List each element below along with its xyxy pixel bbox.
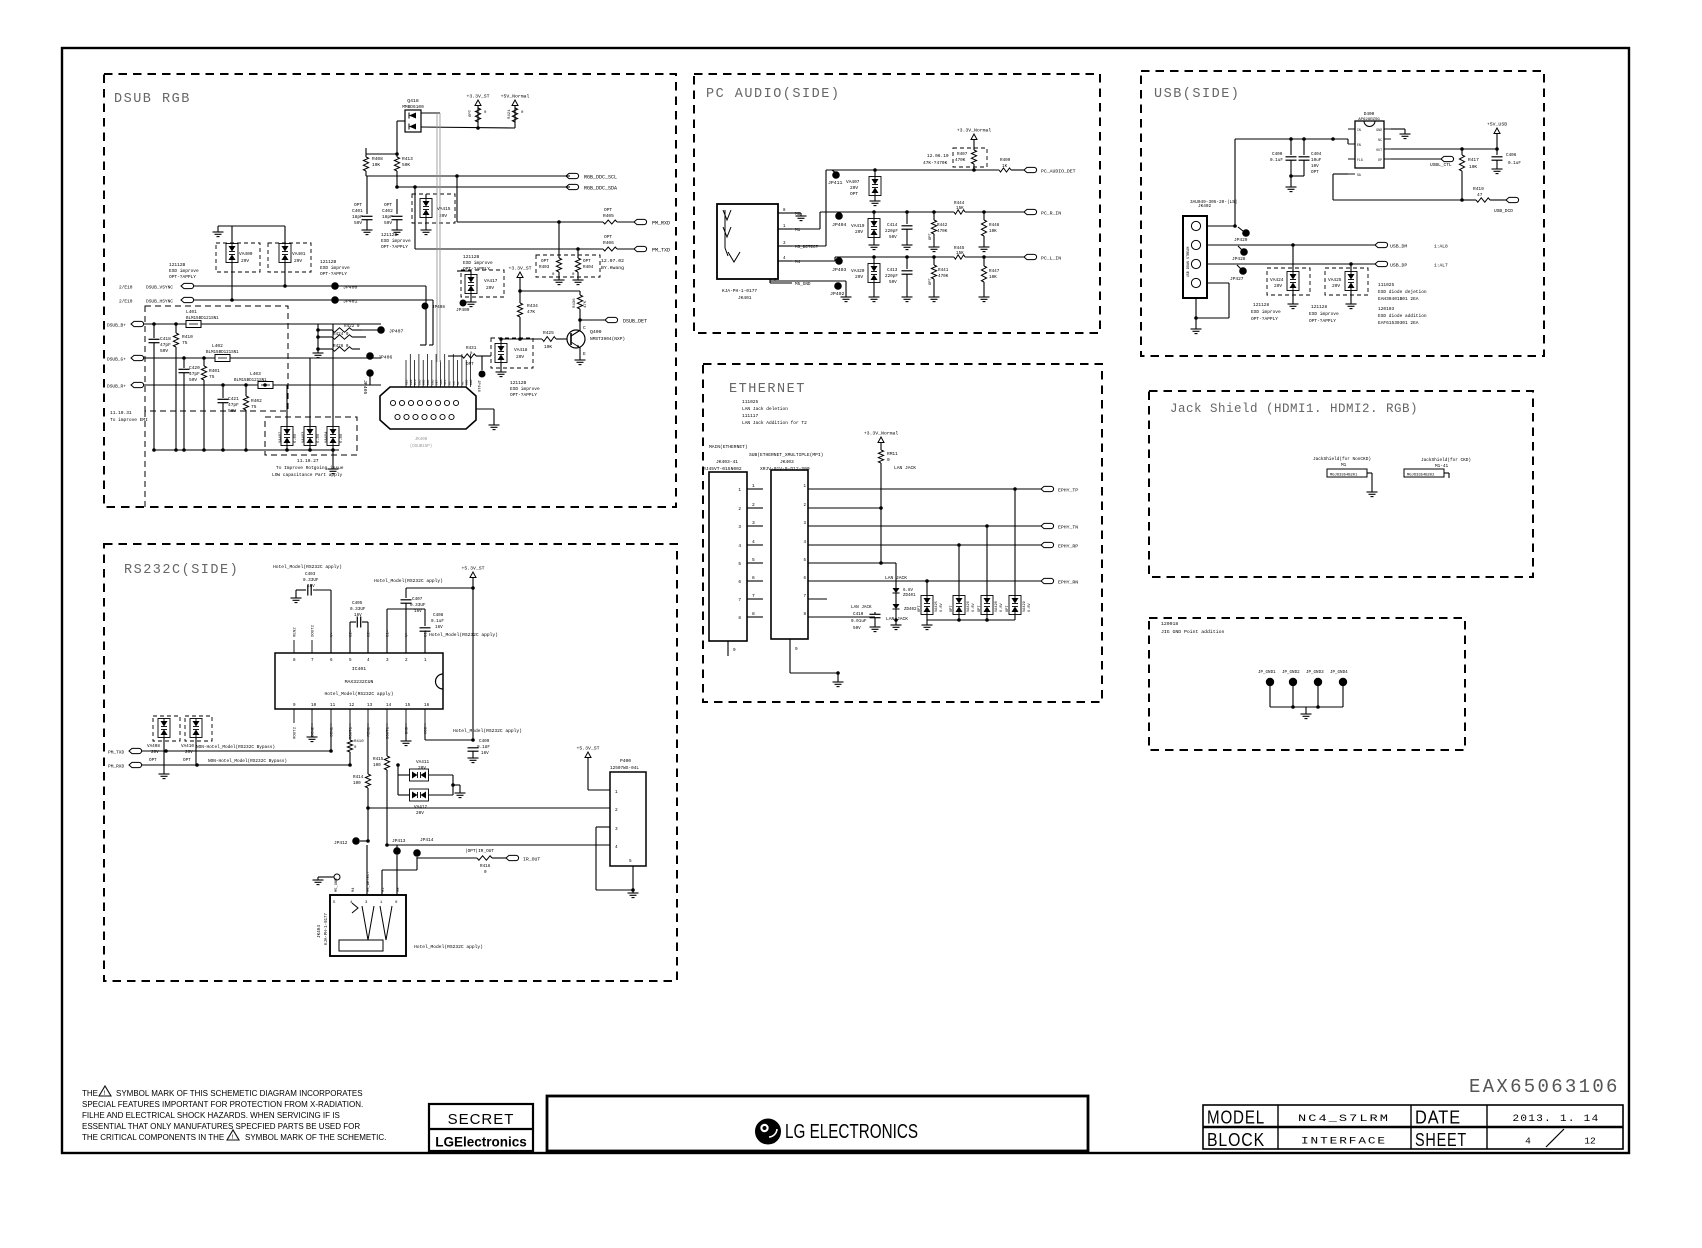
svg-text:DATE: DATE bbox=[1415, 1108, 1461, 1128]
IC D400 label bbox=[1358, 112, 1380, 122]
svg-text:100: 100 bbox=[353, 781, 361, 786]
svg-text:OPT: OPT bbox=[1311, 170, 1319, 175]
resistor R410 0 rs232 bbox=[347, 723, 364, 765]
wire VCC to rail bbox=[425, 723, 473, 740]
resistor OPT R404 bbox=[572, 249, 594, 285]
wire M5_DETECT up bbox=[792, 170, 826, 246]
jumper JP401 bbox=[331, 296, 357, 304]
svg-text:20V: 20V bbox=[516, 354, 524, 360]
svg-text:BLM15BD121SN1: BLM15BD121SN1 bbox=[206, 351, 239, 355]
svg-text:RM11: RM11 bbox=[887, 451, 898, 457]
resistor OPT R405 bbox=[603, 207, 617, 224]
svg-text:11: 11 bbox=[330, 703, 336, 708]
svg-text:C414: C414 bbox=[887, 223, 898, 228]
ESD diode VA425 box usb bbox=[1325, 268, 1368, 295]
transistor Q400 bbox=[567, 320, 625, 365]
svg-text:JP404: JP404 bbox=[832, 222, 847, 228]
svg-text:ZD401: ZD401 bbox=[903, 594, 916, 598]
svg-text:5: 5 bbox=[333, 901, 336, 905]
svg-text:C403: C403 bbox=[305, 572, 316, 577]
svg-text:VA429: VA429 bbox=[1023, 601, 1027, 612]
svg-text:R408: R408 bbox=[372, 156, 383, 162]
capacitor C405 0.33UF bbox=[350, 601, 368, 653]
note hotel model C403 bbox=[273, 564, 342, 570]
svg-text:PM_TXD: PM_TXD bbox=[108, 750, 125, 756]
svg-text:9: 9 bbox=[293, 703, 296, 708]
jumper JP414 bbox=[413, 837, 434, 857]
svg-text:RGB_DDC_SDA: RGB_DDC_SDA bbox=[584, 186, 617, 192]
ESD diode VA401 box bbox=[268, 243, 311, 272]
svg-text:0: 0 bbox=[354, 746, 357, 750]
svg-text:3: 3 bbox=[783, 242, 786, 246]
svg-text:SUB(ETHERNET_XMULTIPLE(MPI): SUB(ETHERNET_XMULTIPLE(MPI) bbox=[749, 452, 823, 458]
note hotel model JK404 bbox=[414, 944, 483, 950]
svg-text:SHEET: SHEET bbox=[1415, 1130, 1467, 1150]
resistor R426 0 bbox=[318, 344, 360, 351]
svg-text:LAN JACK: LAN JACK bbox=[886, 616, 908, 622]
svg-text:JP400: JP400 bbox=[343, 285, 358, 291]
svg-text:VA425: VA425 bbox=[1328, 277, 1342, 283]
svg-text:ESD improve: ESD improve bbox=[510, 386, 540, 392]
svg-text:+5.3V_ST: +5.3V_ST bbox=[461, 566, 484, 572]
wire DSUB_B+ row bbox=[107, 321, 381, 328]
svg-text:ESD diode addition: ESD diode addition bbox=[1378, 313, 1427, 319]
dashed box OPT R403 R404 bbox=[536, 255, 600, 277]
svg-text:6.8V: 6.8V bbox=[903, 589, 914, 593]
jack shield M1-41 part bbox=[1404, 469, 1444, 478]
wire M5_GND row bbox=[770, 281, 852, 302]
svg-text:E: E bbox=[583, 351, 586, 357]
svg-text:(DSUB15P): (DSUB15P) bbox=[410, 444, 433, 449]
jumper JP400 bbox=[331, 282, 357, 290]
ESD diode VA415 box bbox=[412, 194, 455, 223]
svg-text:JP_GND2: JP_GND2 bbox=[1282, 671, 1300, 675]
svg-text:BLU: BLU bbox=[414, 379, 417, 385]
ground D400 bbox=[1391, 129, 1411, 139]
svg-text:1: 1 bbox=[615, 790, 618, 795]
ESD diode VA418 bbox=[495, 337, 528, 376]
svg-text:OPT: OPT bbox=[929, 232, 933, 240]
svg-text:0.1uF: 0.1uF bbox=[431, 619, 444, 624]
connector P400 pin numbers bbox=[615, 790, 632, 864]
wire DSUB_VSYNC row bbox=[119, 283, 426, 290]
connector JK403-41 pins bbox=[738, 488, 763, 621]
wire DSUB_G+ row bbox=[107, 355, 381, 362]
svg-text:12112B: 12112B bbox=[510, 380, 527, 386]
svg-text:GND: GND bbox=[466, 379, 469, 385]
svg-text:PC_L_IN: PC_L_IN bbox=[1041, 256, 1061, 262]
svg-text:10K: 10K bbox=[372, 162, 380, 168]
svg-text:EAX65063106: EAX65063106 bbox=[1469, 1076, 1620, 1098]
wire PM_TXD row bbox=[415, 187, 634, 251]
svg-text:EPHY_RN: EPHY_RN bbox=[1058, 580, 1078, 586]
svg-text:2: 2 bbox=[738, 507, 741, 512]
label SHEET bbox=[1415, 1130, 1467, 1150]
svg-text:VA418: VA418 bbox=[514, 347, 528, 353]
label LAN JACK top bbox=[894, 465, 916, 471]
svg-text:GND: GND bbox=[423, 379, 426, 385]
svg-text:Hotel_Model(RS232C apply): Hotel_Model(RS232C apply) bbox=[414, 944, 483, 950]
jumper JP428 bbox=[1232, 246, 1248, 262]
ESD diode VA402 bbox=[279, 417, 298, 452]
svg-text:DSUB_HSYNC: DSUB_HSYNC bbox=[146, 299, 173, 305]
wire eth esd verticals bbox=[927, 489, 1015, 596]
svg-text:MMBD6100: MMBD6100 bbox=[402, 104, 424, 110]
ground ESD cluster bbox=[328, 450, 339, 474]
svg-text:50V: 50V bbox=[354, 220, 362, 226]
capacitor C414 220pF bbox=[885, 212, 913, 250]
stub PC_L_IN bbox=[1024, 254, 1061, 261]
svg-text:1: 1 bbox=[738, 488, 741, 493]
svg-text:5: 5 bbox=[349, 658, 352, 663]
svg-text:JK403-41: JK403-41 bbox=[716, 459, 738, 465]
svg-text:C404: C404 bbox=[1311, 152, 1322, 157]
svg-text:VA428: VA428 bbox=[995, 601, 999, 612]
svg-text:C400: C400 bbox=[1272, 152, 1283, 157]
svg-text:JP427: JP427 bbox=[1230, 276, 1244, 282]
svg-text:4: 4 bbox=[783, 257, 786, 261]
svg-text:0: 0 bbox=[484, 870, 487, 875]
svg-text:OPT: OPT bbox=[604, 234, 612, 240]
note 12.07.02 BY.Hwang bbox=[601, 258, 624, 271]
svg-text:R409: R409 bbox=[1000, 158, 1011, 163]
svg-text:VA411: VA411 bbox=[416, 760, 430, 765]
svg-text:111025: 111025 bbox=[1378, 282, 1395, 288]
svg-text:USB_DP: USB_DP bbox=[1390, 263, 1407, 269]
wire JK404 M8 bbox=[396, 855, 398, 895]
jumper JP_GND1 bbox=[1266, 678, 1274, 707]
svg-text:ESD improve: ESD improve bbox=[1251, 309, 1281, 315]
svg-text:4: 4 bbox=[615, 845, 618, 850]
label MODEL bbox=[1207, 1108, 1265, 1128]
connector JK403 pin numbers bbox=[752, 483, 806, 617]
wire Q418 lower row bbox=[421, 126, 515, 130]
label LAN JACK mid bbox=[885, 575, 907, 581]
jumper JP406 bbox=[366, 352, 392, 360]
svg-text:NC: NC bbox=[1378, 138, 1382, 142]
jumper JP413 bbox=[392, 838, 406, 855]
svg-text:L403: L403 bbox=[250, 371, 261, 377]
svg-text:5: 5 bbox=[629, 859, 632, 864]
EAX65063106 part number bbox=[1469, 1076, 1620, 1098]
svg-text:PM_TXD: PM_TXD bbox=[652, 248, 670, 254]
svg-text:To Improve Rotgoing issue: To Improve Rotgoing issue bbox=[276, 465, 344, 471]
svg-text:BLOCK: BLOCK bbox=[1207, 1130, 1265, 1150]
svg-text:R416: R416 bbox=[480, 864, 491, 869]
wire gray bus 2 bbox=[439, 113, 441, 362]
power +5.3V_ST P400 bbox=[576, 746, 610, 791]
stub USB_CTL bbox=[1391, 156, 1454, 168]
wire DIN1 to TXD bbox=[330, 723, 332, 751]
stub PM_RXD rs232 bbox=[108, 762, 352, 769]
label JP_GND pins bbox=[1258, 671, 1348, 675]
svg-text:47: 47 bbox=[1477, 192, 1483, 198]
svg-text:5: 5 bbox=[752, 557, 755, 563]
svg-text:JP405: JP405 bbox=[362, 380, 368, 395]
wire USB_DP row bbox=[1207, 262, 1375, 266]
svg-text:VA415: VA415 bbox=[437, 206, 451, 212]
svg-text:16V: 16V bbox=[481, 751, 489, 756]
power +3.3V_Normal eth bbox=[864, 431, 899, 451]
svg-text:0.1uF: 0.1uF bbox=[1508, 161, 1521, 166]
svg-text:R406: R406 bbox=[603, 240, 614, 246]
resistor RM11 0 bbox=[878, 450, 898, 563]
resistor OPT R403 bbox=[539, 222, 565, 285]
note ESD improve VA417 bbox=[463, 254, 493, 272]
svg-text:2: 2 bbox=[803, 504, 806, 508]
svg-text:SPECIAL FEATURES IMPORTANT FOR: SPECIAL FEATURES IMPORTANT FOR PROTECTIO… bbox=[82, 1100, 363, 1109]
svg-text:R401: R401 bbox=[209, 368, 220, 374]
svg-text:+5V_USB: +5V_USB bbox=[1487, 122, 1507, 128]
svg-text:0.33UF: 0.33UF bbox=[303, 578, 319, 583]
svg-text:EPHY_TP: EPHY_TP bbox=[1058, 488, 1078, 494]
LGElectronics text bbox=[435, 1135, 527, 1150]
IC D400 body bbox=[1355, 121, 1384, 168]
stub DSUB_DET bbox=[605, 317, 647, 324]
svg-text:7: 7 bbox=[738, 598, 741, 603]
RS232C section box bbox=[104, 544, 677, 981]
svg-text:0.1UF: 0.1UF bbox=[477, 745, 490, 750]
svg-text:IC401: IC401 bbox=[352, 666, 367, 672]
svg-text:R405: R405 bbox=[603, 213, 614, 219]
svg-text:6.8V: 6.8V bbox=[294, 433, 298, 443]
ground ZD402 bbox=[891, 620, 902, 630]
svg-text:NC4_S7LRM: NC4_S7LRM bbox=[1298, 1114, 1390, 1125]
svg-text:OPT: OPT bbox=[469, 109, 473, 117]
svg-text:50K: 50K bbox=[402, 162, 410, 168]
ESD diode VA424 box bbox=[1267, 268, 1310, 295]
svg-text:OPT: OPT bbox=[850, 191, 858, 197]
svg-text:16: 16 bbox=[424, 703, 430, 708]
svg-text:JK401: JK401 bbox=[738, 295, 752, 301]
svg-text:9: 9 bbox=[795, 647, 798, 652]
svg-text:1: 1 bbox=[424, 658, 427, 663]
ground C400/C404 bbox=[1286, 174, 1305, 191]
svg-text:10V: 10V bbox=[1311, 164, 1319, 169]
svg-text:LOW capacitance Part apply: LOW capacitance Part apply bbox=[272, 472, 343, 478]
wire D400 SA loop bbox=[1333, 174, 1464, 202]
svg-text:R441: R441 bbox=[938, 268, 949, 273]
svg-text:11.10.27: 11.10.27 bbox=[297, 458, 319, 464]
ESD diode VA401 bbox=[279, 244, 306, 288]
ESD diodes VA425/426/428/429 bbox=[918, 596, 1032, 615]
svg-text:10uF: 10uF bbox=[1311, 158, 1322, 163]
svg-text:18pF: 18pF bbox=[352, 214, 363, 220]
svg-text:20V: 20V bbox=[855, 274, 863, 280]
svg-text:ROUT2: ROUT2 bbox=[294, 726, 298, 739]
svg-text:0.33UF: 0.33UF bbox=[410, 603, 426, 608]
svg-text:VA401: VA401 bbox=[292, 251, 306, 257]
ground JK403 pin9 bbox=[833, 673, 844, 687]
svg-text:GRN: GRN bbox=[410, 379, 413, 385]
IC IC401 labels bbox=[325, 666, 394, 697]
power +5.3V_ST rs232 bbox=[461, 566, 484, 742]
svg-text:BLM15BD121SN1: BLM15BD121SN1 bbox=[234, 379, 267, 383]
svg-text:NON-Hotel_Model(RS232C Bypass): NON-Hotel_Model(RS232C Bypass) bbox=[196, 745, 275, 750]
audio jack pin M8 bbox=[778, 209, 801, 217]
svg-text:M8: M8 bbox=[397, 887, 401, 892]
power +3.3V_Normal bbox=[957, 128, 992, 149]
label DATE bbox=[1415, 1108, 1461, 1128]
SECRET text bbox=[448, 1111, 515, 1128]
jumper JP_GND2 bbox=[1289, 678, 1297, 707]
wire sync feeds bbox=[420, 286, 433, 345]
connector JK400 label bbox=[410, 438, 433, 449]
wire USB top rail bbox=[1235, 137, 1348, 226]
capacitor C408 0.1uF bbox=[387, 609, 444, 653]
svg-text:PM_RXD: PM_RXD bbox=[108, 764, 125, 770]
svg-text:3: 3 bbox=[615, 827, 618, 832]
JIG GND section box bbox=[1149, 618, 1465, 750]
wire RGB_DDC_SDA bbox=[395, 171, 570, 189]
svg-text:IR_OUT: IR_OUT bbox=[523, 857, 540, 863]
ESD diode VA403 bbox=[302, 417, 321, 452]
svg-text:0.33UF: 0.33UF bbox=[350, 607, 366, 612]
svg-text:ESD improve: ESD improve bbox=[381, 238, 411, 244]
wire IR_OUT row bbox=[417, 849, 494, 858]
USB section box bbox=[1141, 71, 1544, 356]
svg-text:REN2: REN2 bbox=[294, 627, 298, 637]
jumper JP405 bbox=[362, 369, 374, 394]
svg-text:C421: C421 bbox=[228, 396, 239, 402]
svg-text:GND: GND bbox=[431, 379, 434, 385]
svg-text:MGJ63354B202: MGJ63354B202 bbox=[1407, 474, 1435, 478]
ESD diode VA410 box bbox=[185, 716, 212, 741]
svg-text:8: 8 bbox=[783, 209, 786, 213]
svg-text:OPT-?APPLY: OPT-?APPLY bbox=[169, 274, 196, 280]
svg-text:1: 1 bbox=[803, 485, 806, 489]
svg-text:VA403: VA403 bbox=[302, 431, 306, 443]
svg-text:BY.Hwang: BY.Hwang bbox=[601, 265, 624, 271]
stub USB_DCD bbox=[1494, 197, 1519, 214]
svg-text:9: 9 bbox=[733, 648, 736, 653]
DSUB RGB section box bbox=[104, 74, 676, 507]
stub PM_TXD bbox=[634, 246, 670, 253]
svg-text:20V: 20V bbox=[185, 750, 193, 755]
svg-text:ESD improve: ESD improve bbox=[320, 265, 350, 271]
svg-text:R410: R410 bbox=[182, 334, 193, 340]
svg-text:8: 8 bbox=[738, 616, 741, 621]
svg-text:47K: 47K bbox=[584, 300, 588, 308]
svg-text:1:AL8: 1:AL8 bbox=[1434, 244, 1448, 250]
note ESD improve left bbox=[169, 262, 199, 280]
label JackShield NonCKD bbox=[1313, 457, 1371, 468]
svg-text:1: 1 bbox=[380, 901, 383, 905]
LG ELECTRONICS box bbox=[547, 1096, 1088, 1151]
svg-text:5: 5 bbox=[803, 559, 806, 563]
svg-text:R448: R448 bbox=[989, 223, 1000, 228]
note hotel model C408 bbox=[429, 632, 498, 638]
wire Q418 to bus bbox=[397, 113, 440, 154]
svg-text:10K: 10K bbox=[544, 344, 552, 350]
wire JK404 M5_DETECT bbox=[366, 845, 368, 895]
svg-text:ESSENTIAL THAT ONLY MANUFATURE: ESSENTIAL THAT ONLY MANUFATURES SPECFIED… bbox=[82, 1122, 360, 1131]
svg-text:7: 7 bbox=[803, 595, 806, 599]
svg-text:15K: 15K bbox=[956, 206, 964, 211]
svg-text:12.06.10: 12.06.10 bbox=[927, 153, 949, 159]
svg-text:1: 1 bbox=[752, 483, 755, 489]
svg-text:R407: R407 bbox=[957, 152, 968, 157]
svg-text:VA425: VA425 bbox=[935, 601, 939, 612]
connector JK403 body bbox=[771, 470, 808, 639]
svg-text:10: 10 bbox=[311, 703, 317, 708]
wire eth pin7 stub bbox=[808, 598, 827, 600]
svg-text:ZD402: ZD402 bbox=[904, 608, 917, 612]
svg-text:L402: L402 bbox=[212, 343, 223, 349]
note LAN jack deletion bbox=[742, 399, 788, 412]
wire D400 output rail bbox=[1391, 147, 1499, 151]
ESD diode VA412 bbox=[398, 775, 455, 816]
svg-text:MAIN(ETHERNET): MAIN(ETHERNET) bbox=[709, 444, 748, 450]
svg-text:JIG GND Point addition: JIG GND Point addition bbox=[1161, 629, 1224, 635]
svg-text:R402: R402 bbox=[251, 398, 262, 404]
svg-text:12507WS-04L: 12507WS-04L bbox=[610, 766, 639, 771]
svg-text:12: 12 bbox=[1584, 1136, 1596, 1147]
ETHERNET section title bbox=[729, 382, 806, 397]
svg-text:USB(SIDE): USB(SIDE) bbox=[1154, 87, 1240, 102]
svg-text:Hotel_Model(RS232C apply): Hotel_Model(RS232C apply) bbox=[374, 578, 443, 584]
svg-text:6: 6 bbox=[330, 658, 333, 663]
svg-text:+5V_Normal: +5V_Normal bbox=[501, 94, 530, 100]
ground eth esd bbox=[922, 620, 933, 630]
svg-text:6: 6 bbox=[752, 575, 755, 581]
svg-text:OPT: OPT bbox=[541, 259, 549, 264]
IC IC401 top pins bbox=[293, 624, 429, 663]
svg-text:2: 2 bbox=[405, 658, 408, 663]
svg-text:PC_R_IN: PC_R_IN bbox=[1041, 211, 1061, 217]
svg-text:Q418: Q418 bbox=[407, 98, 419, 104]
svg-text:VA404: VA404 bbox=[325, 431, 329, 443]
stub PC_AUDIO_DET bbox=[1024, 167, 1076, 174]
svg-text:M1-41: M1-41 bbox=[1435, 464, 1449, 469]
value date 2013.1.14 bbox=[1513, 1114, 1600, 1125]
svg-text:THE: THE bbox=[82, 1089, 98, 1098]
svg-text:ESD improve: ESD improve bbox=[463, 260, 493, 266]
svg-text:4: 4 bbox=[803, 541, 806, 545]
ESD diode VA404 bbox=[325, 417, 344, 452]
label SUB ETHERNET bbox=[749, 452, 823, 458]
wire eth pin5 row bbox=[808, 561, 896, 585]
value model NC4_S7LRM bbox=[1298, 1114, 1390, 1125]
svg-text:DSUB_VSYNC: DSUB_VSYNC bbox=[146, 285, 173, 291]
svg-text:OPT: OPT bbox=[604, 207, 612, 213]
svg-text:JackShield(for NonCKD): JackShield(for NonCKD) bbox=[1313, 457, 1371, 462]
svg-text:DET: DET bbox=[436, 379, 439, 385]
svg-text:THE CRITICAL COMPONENTS IN THE: THE CRITICAL COMPONENTS IN THE bbox=[82, 1133, 224, 1142]
svg-text:10K: 10K bbox=[989, 275, 997, 280]
svg-text:0.1uF: 0.1uF bbox=[1270, 158, 1283, 163]
ground JIG GND bbox=[1301, 707, 1312, 719]
USB section title bbox=[1154, 87, 1240, 102]
jumper JP410 bbox=[476, 356, 486, 393]
resistor OPT R406 bbox=[603, 234, 617, 251]
svg-text:R434: R434 bbox=[527, 303, 538, 309]
svg-text:R425: R425 bbox=[543, 330, 554, 336]
resistor R447 10K bbox=[979, 255, 1000, 301]
ESD diode VA417 bbox=[457, 271, 498, 307]
svg-text:111025: 111025 bbox=[742, 399, 759, 405]
svg-text:+3.3V_ST: +3.3V_ST bbox=[466, 94, 489, 100]
svg-text:C406: C406 bbox=[1506, 153, 1517, 158]
ESD diode VA411 bbox=[396, 760, 453, 781]
svg-text:6.8V: 6.8V bbox=[972, 603, 976, 612]
connector JK403-41 pin9 bbox=[728, 641, 736, 656]
svg-text:7: 7 bbox=[752, 593, 755, 599]
ESD diode VA419 bbox=[851, 212, 880, 250]
svg-text:R426 0: R426 0 bbox=[333, 344, 349, 349]
jumper JP412 bbox=[334, 837, 368, 846]
note ESD diode addition bbox=[1378, 306, 1427, 326]
